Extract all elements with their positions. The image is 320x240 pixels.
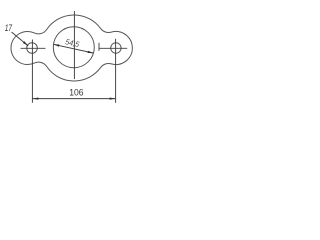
left hole crosshair vertical + extension line <box>31 40 33 103</box>
arrowhead diameter left <box>53 44 59 46</box>
arrowhead leader 17 <box>23 41 28 46</box>
svg-text:17: 17 <box>5 23 13 33</box>
leader line 17 <box>12 32 29 46</box>
arrowhead diameter right <box>87 51 93 53</box>
diameter dimension line <box>53 44 93 53</box>
bolt hole left <box>27 43 38 54</box>
arrowhead dim 106 left <box>32 97 38 99</box>
right hole end tick <box>98 43 100 51</box>
dimension line 106 <box>32 98 115 100</box>
right hole crosshair horizontal <box>99 47 127 49</box>
vertical centerline of center hole <box>73 11 75 79</box>
svg-text:106: 106 <box>69 87 83 97</box>
right hole crosshair vertical + extension line <box>115 39 117 103</box>
left hole crosshair horizontal <box>21 47 46 49</box>
center hole circle <box>53 27 94 68</box>
bolt hole right <box>111 43 121 53</box>
gasket outline <box>11 15 132 81</box>
arrowhead dim 106 right <box>110 97 116 99</box>
